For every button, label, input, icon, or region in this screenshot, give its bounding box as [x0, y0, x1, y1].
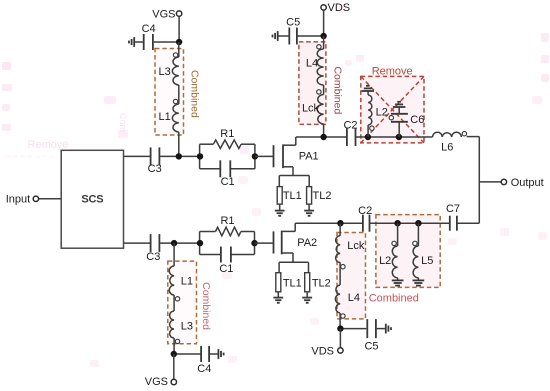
svg-text:C4: C4 — [197, 363, 211, 375]
svg-text:L2: L2 — [379, 255, 391, 267]
svg-text:VDS: VDS — [328, 2, 351, 14]
svg-text:TL2: TL2 — [312, 277, 331, 289]
svg-text:VGS: VGS — [152, 8, 175, 20]
svg-text:PA2: PA2 — [297, 237, 317, 249]
svg-text:Remove: Remove — [372, 66, 413, 78]
svg-text:PA1: PA1 — [299, 151, 319, 163]
svg-text:TL1: TL1 — [283, 190, 302, 202]
svg-text:C3: C3 — [148, 163, 162, 175]
svg-text:Combined: Combined — [200, 282, 212, 330]
svg-text:L5: L5 — [421, 255, 433, 267]
svg-text:L3: L3 — [181, 321, 193, 333]
svg-text:C5: C5 — [286, 17, 300, 29]
svg-text:Combined: Combined — [188, 70, 200, 118]
svg-text:L6: L6 — [441, 142, 453, 154]
svg-text:Lck: Lck — [302, 103, 320, 115]
svg-text:C7: C7 — [446, 203, 460, 215]
svg-text:VGS: VGS — [145, 376, 168, 388]
svg-text:SCS: SCS — [81, 194, 103, 206]
svg-text:C5: C5 — [364, 341, 378, 353]
svg-text:L3: L3 — [158, 66, 170, 78]
svg-text:R1: R1 — [220, 128, 234, 140]
svg-text:C2: C2 — [358, 205, 372, 217]
svg-text:Input: Input — [6, 193, 30, 205]
svg-text:Lck: Lck — [347, 240, 365, 252]
svg-text:Combined: Combined — [369, 293, 419, 305]
svg-text:L4: L4 — [348, 292, 360, 304]
svg-text:C4: C4 — [142, 23, 156, 35]
svg-text:C1: C1 — [221, 176, 235, 188]
svg-text:VDS: VDS — [311, 345, 334, 357]
svg-text:L2: L2 — [376, 107, 388, 119]
svg-text:TL2: TL2 — [313, 190, 332, 202]
svg-text:C1: C1 — [219, 263, 233, 275]
svg-text:Remove: Remove — [28, 139, 69, 151]
svg-text:Com: Com — [118, 113, 128, 132]
svg-text:Output: Output — [511, 177, 544, 189]
svg-text:L1: L1 — [158, 111, 170, 123]
svg-text:L4: L4 — [306, 58, 318, 70]
svg-text:R1: R1 — [220, 215, 234, 227]
svg-text:TL1: TL1 — [283, 277, 302, 289]
svg-text:C6: C6 — [410, 114, 424, 126]
svg-text:C3: C3 — [146, 251, 160, 263]
svg-text:L1: L1 — [181, 276, 193, 288]
svg-text:C2: C2 — [343, 119, 357, 131]
svg-text:Combined: Combined — [332, 66, 344, 114]
